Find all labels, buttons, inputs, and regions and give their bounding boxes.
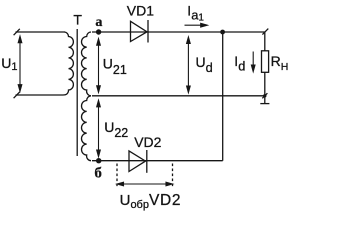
- transformer T primary winding: [63, 32, 73, 95]
- corner tick top-right: [262, 29, 268, 35]
- junction dot cathodes: [220, 30, 225, 35]
- svg-text:a: a: [95, 15, 102, 30]
- svg-text:RH: RH: [271, 53, 289, 73]
- Uobr measuring arrow: [120, 183, 169, 185]
- node b junction dot: [96, 158, 101, 163]
- dashed line left under VD2: [116, 164, 118, 189]
- svg-text:T: T: [73, 12, 82, 28]
- svg-text:б: б: [94, 165, 102, 181]
- terminal slash top-left: [14, 29, 20, 35]
- node a junction dot: [96, 29, 101, 34]
- Id current arrow: [252, 52, 254, 69]
- transformer core: [76, 29, 78, 156]
- Ia1 current arrow: [185, 24, 204, 26]
- U1 measuring arrow: [19, 40, 21, 89]
- resistor RH lead top: [264, 32, 266, 51]
- terminal slash bottom-left: [14, 92, 20, 98]
- svg-text:VD2: VD2: [134, 134, 161, 150]
- svg-text:Ia1: Ia1: [187, 3, 204, 24]
- middle wire end slash: [262, 93, 267, 98]
- resistor RH lead bottom with stub: [264, 72, 266, 103]
- wire bottom-left from source terminal to primary: [16, 94, 64, 96]
- svg-text:U1: U1: [1, 55, 17, 73]
- diode VD2 cathode bar: [146, 150, 148, 173]
- resistor RH body: [262, 51, 269, 73]
- Ud measuring arrow: [187, 40, 189, 89]
- small dot middle wire end: [263, 94, 266, 97]
- svg-text:Id: Id: [234, 53, 245, 74]
- bottom wire from node b through VD2 to corner: [92, 160, 223, 162]
- middle wire (center tap to load bottom): [92, 95, 265, 97]
- U22 measuring arrow: [98, 104, 100, 154]
- svg-text:UобрVD2: UобрVD2: [120, 192, 182, 211]
- wire top from node a through VD1 to right corner: [92, 31, 265, 33]
- wire top-left from source terminal to primary: [16, 31, 66, 33]
- svg-text:U21: U21: [103, 56, 127, 77]
- svg-text:Ud: Ud: [196, 54, 213, 75]
- svg-text:VD1: VD1: [127, 3, 154, 19]
- terminal T-bar below middle wire: [260, 103, 269, 105]
- svg-text:U22: U22: [104, 119, 128, 140]
- transformer secondary winding lower U22: [81, 96, 91, 161]
- diode VD1 cathode bar: [147, 20, 149, 43]
- diode VD2 triangle: [129, 151, 146, 172]
- transformer secondary winding upper U21: [81, 32, 91, 96]
- diode VD1 triangle: [131, 21, 148, 41]
- wire right vertical from bottom corner up to top junction: [222, 32, 224, 161]
- dashed line right under VD2: [172, 164, 174, 189]
- U21 measuring arrow: [98, 42, 100, 89]
